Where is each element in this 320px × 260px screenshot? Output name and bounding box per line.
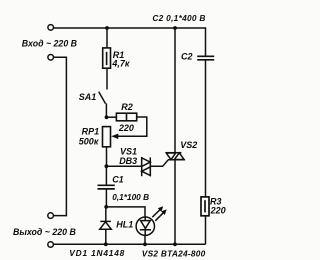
- node R1 top junction: [105, 26, 109, 30]
- wire R3 to bottom rail: [205, 216, 207, 245]
- wire C2 to R3: [205, 60, 207, 197]
- capacitor C1: [98, 185, 115, 189]
- wire RP1 lower lead: [106, 147, 108, 166]
- diac VS1: [142, 157, 151, 176]
- svg-text:C2: C2: [181, 52, 193, 62]
- svg-text:DB3: DB3: [119, 156, 137, 166]
- node VS2 top junction: [173, 26, 177, 30]
- svg-text:RP1: RP1: [82, 126, 100, 136]
- node R2/RP1 junction: [105, 115, 109, 119]
- wire R2 to wiper loop: [118, 117, 147, 136]
- svg-text:Вход ~ 220 В: Вход ~ 220 В: [22, 39, 78, 49]
- wire VD1 lower lead: [105, 229, 107, 244]
- wire bottom rail: [53, 243, 205, 245]
- resistor R2: [116, 113, 136, 121]
- svg-text:220: 220: [118, 123, 134, 133]
- LED arrow 2: [155, 212, 164, 221]
- output terminal top: [48, 213, 54, 219]
- diode VD1: [100, 221, 112, 229]
- wire HL1 lower lead: [144, 235, 146, 244]
- svg-text:R2: R2: [121, 102, 133, 112]
- svg-text:VS2 BTA24-800: VS2 BTA24-800: [142, 249, 206, 259]
- switch SA1: [99, 92, 106, 104]
- wire left rail: [53, 57, 66, 215]
- wire C1 upper lead: [105, 166, 107, 185]
- wire junction to HL1: [106, 207, 145, 217]
- node HL1 bottom junction: [143, 242, 147, 246]
- node VD1/HL1 junction: [104, 205, 108, 209]
- capacitor C2: [197, 56, 214, 60]
- wire R1 to switch: [106, 68, 108, 89]
- node VD1 bottom junction: [104, 242, 108, 246]
- wire top rail: [54, 27, 206, 29]
- node VS2 bottom junction: [173, 242, 177, 246]
- wire VD1 upper lead: [105, 207, 107, 222]
- svg-text:HL1: HL1: [116, 219, 133, 229]
- svg-text:4,7к: 4,7к: [111, 59, 130, 69]
- wire top right corner down: [205, 27, 207, 56]
- wire VS2 upper lead: [174, 28, 176, 153]
- wire diac to triac gate: [150, 160, 168, 167]
- svg-text:C2 0,1*400 В: C2 0,1*400 В: [152, 13, 205, 23]
- LED HL1: [136, 217, 154, 235]
- input terminal top: [48, 25, 54, 31]
- triac VS2: [166, 153, 185, 160]
- wire C1 lower lead: [105, 189, 107, 207]
- wire R1 upper lead: [106, 28, 108, 48]
- potentiometer RP1: [103, 127, 111, 147]
- output terminal bottom: [48, 242, 54, 248]
- svg-text:VS1: VS1: [120, 146, 137, 156]
- resistor R3: [201, 197, 209, 216]
- wire VS2 lower lead: [174, 160, 176, 245]
- wiper arrow of RP1: [111, 134, 118, 139]
- svg-text:C1: C1: [112, 175, 124, 185]
- svg-text:VS2: VS2: [180, 140, 197, 150]
- svg-text:VD1 1N4148: VD1 1N4148: [69, 248, 124, 258]
- input terminal bottom: [48, 55, 54, 61]
- wire switch to junction: [105, 103, 107, 117]
- LED arrow 1: [152, 209, 160, 217]
- svg-text:220: 220: [210, 206, 226, 216]
- svg-text:500к: 500к: [79, 136, 99, 146]
- svg-text:SA1: SA1: [79, 92, 97, 102]
- wire junction to diac: [106, 165, 141, 167]
- resistor R1: [103, 48, 111, 68]
- node C1/VS1 junction: [105, 164, 109, 168]
- svg-text:0,1*100 В: 0,1*100 В: [112, 192, 149, 202]
- wire junction to R2: [107, 116, 117, 118]
- svg-text:Выход ~ 220 В: Выход ~ 220 В: [13, 227, 76, 237]
